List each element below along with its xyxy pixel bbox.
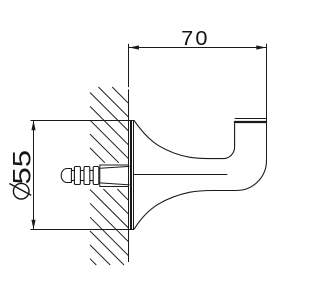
diameter 55 dimension line — [33, 121, 35, 230]
anchor head — [61, 169, 71, 183]
svg-text:70: 70 — [181, 28, 210, 50]
anchor rib 3 — [93, 167, 99, 185]
dimension 70 right extension line merged with hook right side — [266, 44, 268, 161]
inner fillet and tip left side — [223, 123, 235, 159]
diameter symbol slash — [9, 184, 31, 196]
diameter 55 bottom extension line — [31, 229, 135, 231]
outer corner arc — [237, 161, 267, 191]
upper bell curve — [134, 120, 223, 158]
anchor rib 1 — [74, 167, 80, 185]
anchor sleeve outline — [100, 165, 129, 187]
anchor taper lines — [100, 166, 130, 184]
anchor rib 2 — [84, 167, 90, 185]
dimension 70 left arrow — [129, 45, 139, 49]
diameter 55 top arrow — [31, 121, 35, 131]
diameter 55 bottom arrow — [31, 220, 35, 230]
dimension 70 line — [129, 47, 266, 49]
lower bell curve — [134, 191, 237, 230]
tip cap thin line — [235, 118, 267, 120]
wall face line — [128, 44, 130, 262]
wall hatch — [90, 87, 128, 265]
tip cap thick line — [234, 121, 267, 123]
flange plate vertical lines — [131, 120, 134, 229]
arm centerline — [134, 174, 227, 176]
diameter 55 top extension line — [31, 120, 135, 122]
svg-text:55: 55 — [9, 150, 37, 185]
anchor neck grooves — [71, 171, 93, 181]
diameter symbol circle — [13, 183, 29, 199]
dimension 70 right arrow — [256, 45, 266, 49]
